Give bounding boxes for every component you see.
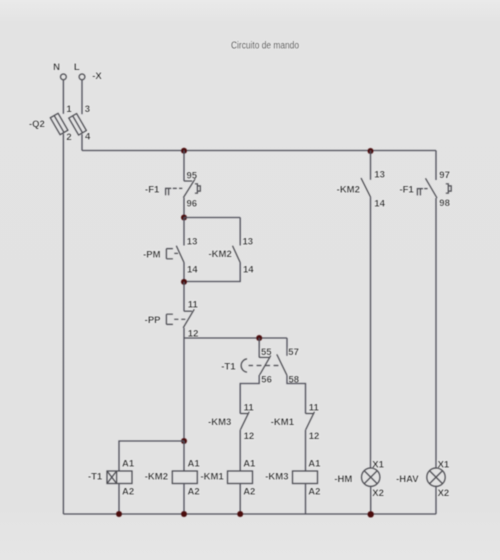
- wire parallel branch top: [184, 217, 240, 219]
- wire T1 56 to KM3 contact: [240, 375, 259, 414]
- wire bottom bus: [63, 513, 436, 515]
- wire KM2 14 to junction: [184, 263, 240, 282]
- contact PM pushbutton NO 13-14: [166, 246, 184, 263]
- svg-text:-KM3: -KM3: [208, 417, 231, 428]
- node junction top bus to KM2 13: [368, 148, 374, 154]
- node junction bus KM2: [181, 511, 187, 517]
- svg-text:14: 14: [374, 198, 385, 209]
- svg-text:12: 12: [309, 431, 320, 442]
- wire to T1 55: [258, 338, 260, 357]
- terminal L: [79, 74, 85, 80]
- node junction T1 55 branch: [256, 335, 262, 341]
- coil KM1: [228, 471, 253, 484]
- coil KM2: [172, 471, 197, 484]
- wire to PM 13: [183, 218, 185, 246]
- svg-text:-F1: -F1: [399, 184, 414, 195]
- breaker Q2 pole 1-2: [50, 113, 68, 134]
- svg-text:-KM2: -KM2: [209, 249, 232, 260]
- svg-text:A1: A1: [122, 459, 135, 470]
- svg-text:57: 57: [288, 347, 299, 358]
- svg-text:-KM3: -KM3: [265, 472, 288, 483]
- wire N terminal to Q2: [62, 80, 64, 114]
- wire L terminal to Q2: [81, 80, 83, 114]
- svg-text:X2: X2: [438, 488, 450, 499]
- contact KM2 aux NO 13-14 lamp branch: [361, 178, 371, 197]
- svg-text:-X: -X: [92, 71, 102, 82]
- wire T1 58 to KM1 contact: [287, 375, 306, 413]
- svg-text:1: 1: [66, 104, 72, 115]
- svg-text:X1: X1: [438, 459, 450, 470]
- svg-text:-KM2: -KM2: [145, 472, 168, 483]
- svg-text:X2: X2: [372, 488, 384, 499]
- svg-text:96: 96: [187, 198, 198, 209]
- wire main to KM2 coil: [183, 441, 185, 471]
- svg-text:-HM: -HM: [334, 474, 352, 485]
- svg-text:A2: A2: [308, 487, 320, 498]
- svg-text:Circuito de mando: Circuito de mando: [231, 40, 299, 51]
- wire KM3 12 to KM1 coil: [239, 430, 241, 471]
- svg-text:-KM1: -KM1: [200, 472, 224, 483]
- svg-text:13: 13: [374, 170, 385, 181]
- node junction bus T1: [116, 511, 122, 517]
- node junction parallel branch top: [181, 215, 187, 221]
- svg-text:-HAV: -HAV: [396, 474, 419, 485]
- svg-text:14: 14: [243, 264, 254, 275]
- breaker Q2 pole 3-4: [69, 114, 87, 135]
- wire KM1 A2: [239, 484, 241, 515]
- svg-text:13: 13: [243, 236, 254, 247]
- svg-text:A1: A1: [243, 459, 256, 470]
- wire KM3 A2: [305, 484, 307, 515]
- contact T1 55-56 NC delayed: [259, 355, 271, 375]
- wire T1 A2: [118, 484, 120, 515]
- svg-text:55: 55: [261, 347, 272, 358]
- wire L below Q2 to top bus: [81, 134, 83, 150]
- svg-text:A2: A2: [188, 487, 200, 498]
- wire KM2 14 to lamp HM: [370, 197, 372, 468]
- svg-text:L: L: [74, 62, 80, 73]
- svg-text:98: 98: [439, 198, 450, 209]
- svg-text:56: 56: [261, 375, 272, 386]
- timer T1 actuator: [241, 359, 278, 372]
- svg-text:-T1: -T1: [88, 472, 103, 483]
- svg-text:-PP: -PP: [145, 315, 162, 326]
- svg-text:13: 13: [187, 236, 198, 247]
- lamp HAV: [427, 468, 445, 486]
- contact PP pushbutton NC 11-12: [166, 309, 194, 328]
- svg-text:14: 14: [187, 264, 198, 275]
- terminal N: [61, 74, 67, 80]
- svg-text:-F1: -F1: [145, 184, 160, 195]
- wire to KM2 13: [239, 218, 241, 246]
- contact F1 97-98 thermal NO: [417, 178, 451, 198]
- wire PM 14 down: [183, 263, 185, 283]
- svg-text:-KM2: -KM2: [337, 185, 360, 196]
- svg-text:A2: A2: [243, 487, 255, 498]
- contact T1 57-58 NO delayed: [277, 354, 287, 375]
- svg-text:A1: A1: [188, 459, 201, 470]
- wire HM X2: [370, 486, 372, 514]
- svg-text:12: 12: [244, 431, 255, 442]
- svg-text:-T1: -T1: [221, 361, 236, 372]
- node junction bus KM1: [237, 511, 243, 517]
- wire F1 98 to lamp HAV: [435, 198, 437, 468]
- wire KM2 A2: [183, 484, 185, 515]
- svg-text:-Q2: -Q2: [29, 119, 45, 130]
- contact KM2 aux NO 13-14 parallel: [233, 246, 241, 263]
- coil KM3: [293, 471, 318, 484]
- svg-text:11: 11: [309, 403, 320, 414]
- svg-text:11: 11: [244, 403, 255, 414]
- node junction bus HM: [368, 511, 374, 517]
- wire to T1 57: [286, 338, 288, 356]
- wire branch to T1 contacts: [184, 337, 287, 339]
- svg-text:95: 95: [187, 171, 198, 182]
- wire PP 12 down main column: [183, 328, 185, 441]
- wire bus to F1 pin 95: [183, 151, 185, 182]
- contact KM1 aux NO 11-12: [306, 412, 315, 430]
- node junction parallel branch bottom: [181, 279, 187, 285]
- svg-text:11: 11: [188, 299, 199, 310]
- wire top bus: [82, 150, 436, 152]
- contact F1 95-96 thermal NC: [165, 179, 200, 198]
- wire HAV X2: [435, 486, 437, 514]
- wire F1 96 down: [183, 198, 185, 218]
- svg-text:2: 2: [66, 132, 71, 143]
- lamp HM: [362, 468, 380, 486]
- contact KM3 aux NO 11-12: [240, 412, 249, 430]
- node junction top bus to F1: [181, 148, 187, 154]
- svg-text:X1: X1: [372, 459, 384, 470]
- svg-text:N: N: [53, 62, 60, 73]
- wire down to PP: [183, 282, 185, 311]
- wire bus corner to F1 97: [435, 151, 437, 181]
- wire N below Q2 down left rail: [62, 134, 64, 514]
- svg-text:97: 97: [439, 170, 450, 181]
- wire KM1 12 to KM3 coil: [305, 430, 307, 471]
- wire branch to T1 coil: [119, 441, 184, 471]
- svg-text:-PM: -PM: [143, 249, 161, 260]
- svg-text:4: 4: [85, 132, 91, 143]
- svg-text:3: 3: [85, 104, 90, 115]
- svg-text:A2: A2: [122, 487, 134, 498]
- svg-text:A1: A1: [308, 459, 321, 470]
- svg-text:-KM1: -KM1: [271, 417, 295, 428]
- wire bus to KM2 13: [370, 151, 372, 180]
- node junction T1 coil branch: [181, 438, 187, 444]
- coil T1 timer: [107, 471, 132, 484]
